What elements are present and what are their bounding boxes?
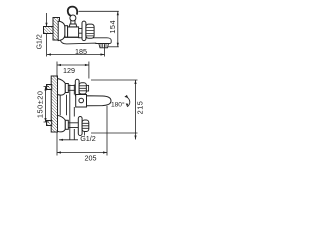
185 left extension line bbox=[46, 34, 48, 57]
top escutcheon bell bbox=[58, 79, 66, 96]
spout hub square bbox=[76, 95, 87, 108]
154 bottom extension bbox=[108, 46, 119, 48]
180° swivel arc bbox=[125, 97, 130, 107]
valve body bbox=[68, 27, 79, 37]
svg-text:154: 154 bbox=[108, 20, 117, 34]
top hub ridges bbox=[79, 86, 86, 91]
dimension 129 line bbox=[57, 64, 89, 66]
bottom inlet nipple (hatched) bbox=[47, 121, 52, 126]
inlet nipple (hatched) top view bbox=[44, 27, 54, 34]
bottom hub bbox=[82, 120, 89, 132]
dimension 154 line bbox=[117, 11, 119, 47]
dimension 150±20 line bbox=[45, 87, 47, 123]
wall surface lines between escutcheons bbox=[60, 95, 66, 115]
spout (side view) bbox=[87, 96, 112, 106]
top knob nub bbox=[86, 85, 88, 91]
bottom hub ridges bbox=[82, 123, 88, 128]
129 right extension bbox=[88, 62, 90, 79]
205 right extension / spout tip line bbox=[106, 106, 108, 156]
bottom connector ring bbox=[65, 120, 68, 129]
top cross bar bbox=[75, 79, 79, 97]
G1/2 leader tick bbox=[84, 132, 86, 136]
handle ball bbox=[70, 15, 76, 21]
185 right extension bbox=[104, 45, 106, 57]
bottom cross bar bbox=[78, 117, 82, 136]
body tube vertical bbox=[70, 85, 75, 141]
handle cap dome bbox=[69, 24, 77, 27]
top stem bbox=[68, 86, 75, 91]
svg-text:150±20: 150±20 bbox=[35, 90, 44, 118]
svg-text:205: 205 bbox=[85, 153, 97, 162]
215 bottom extension bbox=[91, 132, 138, 134]
wall section (hatched) bbox=[51, 76, 57, 132]
spout hub circle bbox=[79, 98, 84, 103]
dimension 185 line bbox=[47, 54, 105, 56]
svg-text:G1/2: G1/2 bbox=[37, 34, 44, 49]
129 left extension bbox=[56, 62, 58, 77]
dimension 205 line bbox=[57, 152, 107, 154]
svg-text:129: 129 bbox=[63, 66, 75, 75]
diverter stem bbox=[79, 29, 82, 34]
bottom stem bbox=[68, 123, 78, 128]
diverter hub bbox=[86, 24, 94, 38]
handle stem bbox=[71, 20, 75, 24]
svg-text:185: 185 bbox=[75, 47, 87, 56]
connector ring bbox=[65, 26, 68, 37]
150±20 extension ticks bbox=[44, 87, 50, 123]
G1/2 leader line bbox=[46, 13, 48, 27]
svg-text:G1/2: G1/2 bbox=[80, 134, 96, 143]
205 left extension bbox=[56, 132, 58, 156]
top hub bbox=[79, 83, 86, 94]
spout (top view) bbox=[60, 37, 111, 44]
bottom escutcheon bell bbox=[58, 115, 66, 132]
aerator ribs bbox=[101, 44, 106, 47]
215 top extension bbox=[91, 79, 138, 81]
spout aerator nub bbox=[99, 44, 109, 48]
154 top extension bbox=[79, 10, 119, 12]
top inlet nipple (hatched) bbox=[47, 85, 52, 90]
svg-text:180°: 180° bbox=[111, 100, 125, 108]
escutcheon bell bbox=[58, 21, 65, 40]
lever hook handle bbox=[68, 7, 77, 16]
wall flange (hatched) top view bbox=[53, 18, 60, 41]
G1/2 leader arrow line bbox=[59, 139, 78, 141]
G1/2 leader arrowhead bbox=[45, 23, 47, 27]
diverter cross bar bbox=[82, 21, 86, 40]
dimension 215 line bbox=[135, 80, 137, 140]
diverter hub ridges bbox=[86, 27, 94, 36]
top connector ring bbox=[65, 84, 68, 93]
svg-text:215: 215 bbox=[135, 101, 144, 115]
